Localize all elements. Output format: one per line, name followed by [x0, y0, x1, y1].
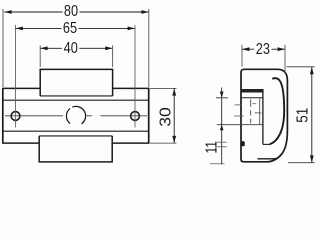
right hole [131, 112, 140, 121]
dimension 40 extension lines [40, 45, 112, 67]
dimension 65 line [16, 27, 136, 29]
nib extension line lower [217, 146, 227, 148]
dimension 40 line [40, 47, 112, 49]
svg-text:51: 51 [295, 108, 312, 123]
center thread arc outer [72, 106, 85, 123]
side view hole bottom edge [217, 124, 263, 126]
side view inner vertical face [262, 89, 264, 144]
svg-text:23: 23 [256, 41, 270, 58]
dimension 11 down arrow [220, 92, 224, 98]
dimension 30 line [173, 88, 175, 143]
dimension 11 bottom extension [210, 163, 225, 165]
svg-text:30: 30 [158, 107, 175, 127]
nib extension line upper [217, 141, 227, 143]
side view step edge c [241, 97, 263, 99]
dimension 30 arrows [172, 88, 176, 143]
top tab boss [40, 69, 112, 96]
dimension 51 line [311, 67, 313, 163]
dimension 51 extension lines [287, 67, 315, 163]
bottom tab boss [39, 136, 112, 162]
side view inner tick a [252, 103, 256, 105]
dimension 40 arrows [40, 46, 112, 50]
side view inner bottom line [258, 154, 281, 159]
rail clip nib [241, 141, 245, 146]
side view inner D arc [270, 78, 285, 144]
center thread arc inner left [66, 108, 70, 123]
dimension 11 leader vertical [221, 88, 223, 165]
step extension line [216, 97, 228, 99]
dimension 23 extension lines [242, 45, 285, 73]
dimension 51 arrows [310, 67, 314, 163]
svg-text:80: 80 [64, 3, 78, 20]
svg-text:11: 11 [203, 141, 220, 154]
dimension 80 arrows [4, 10, 149, 14]
left hole centerline vertical [15, 25, 17, 128]
dimension 80 line [4, 11, 149, 13]
side view hidden vertical dashes [250, 99, 252, 123]
dimension 11 up arrow [220, 125, 224, 131]
bottom tab top edge [39, 135, 112, 137]
top tab bottom edge [40, 95, 112, 97]
side view step edge band [241, 89, 264, 93]
side view inner bottom horizontal [263, 143, 270, 145]
inner horizontal edge lower [3, 130, 149, 132]
inner horizontal edge upper [3, 99, 149, 101]
side view centerline dash [234, 115, 243, 117]
dimension 65 arrows [16, 27, 136, 31]
side view outer outline [241, 69, 287, 162]
dimension 80 extension lines [3, 9, 149, 87]
left hole [11, 112, 20, 121]
dimension 23 arrows [242, 47, 285, 51]
svg-text:65: 65 [63, 20, 77, 37]
side view centerline dash upper [235, 104, 242, 106]
side view inner hidden vertical [259, 98, 261, 125]
side view inner tick b [255, 112, 262, 114]
dimension 23 line [242, 48, 285, 50]
body outline (front view plate) [2, 88, 149, 143]
dimension 30 extension lines [150, 88, 177, 143]
svg-text:40: 40 [64, 40, 78, 57]
horizontal centerline [5, 115, 147, 117]
right hole centerline vertical [134, 25, 136, 128]
